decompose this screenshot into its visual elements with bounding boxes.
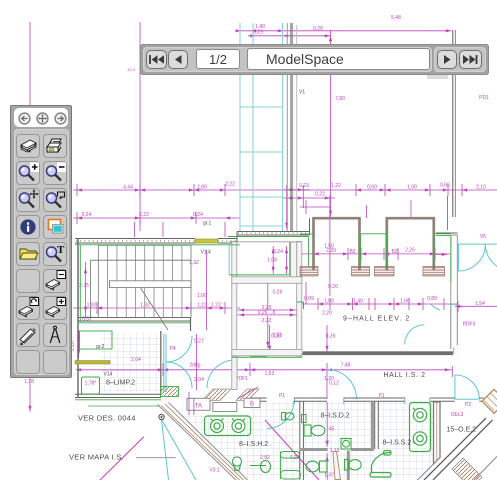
toilet I.S.H small [282, 413, 295, 421]
svg-text:OEL3: OEL3 [451, 412, 464, 418]
window band rail 2 [240, 151, 283, 153]
wall tick c [448, 303, 458, 305]
door I.S.H.2 arc [267, 402, 294, 429]
svg-text:8–I.S.D.2: 8–I.S.D.2 [321, 413, 350, 420]
green finish left wall [79, 245, 81, 322]
next-page button [437, 50, 457, 69]
svg-text:gr.1: gr.1 [203, 221, 212, 227]
svg-text:0,26→8: 0,26→8 [258, 310, 276, 316]
door PDF1 arc [207, 360, 235, 388]
svg-text:TA: TA [195, 404, 202, 410]
ramp pivot marker [159, 414, 164, 419]
facade line PD1 b [454, 30, 456, 217]
svg-text:P2: P2 [465, 402, 471, 408]
window band mullion left [239, 23, 241, 231]
ramp brown line a [161, 406, 240, 480]
svg-text:1,40: 1,40 [353, 299, 363, 305]
green finish window wall [228, 236, 309, 238]
svg-text:8–I.S.H.2: 8–I.S.H.2 [239, 441, 268, 448]
svg-text:T: T [57, 244, 65, 256]
pier brown core [436, 402, 438, 461]
green between shafts [361, 234, 387, 267]
diagonal reference line bath [265, 420, 319, 480]
door P4 frame [164, 334, 166, 392]
svg-text:0,12: 0,12 [329, 381, 339, 387]
hatched duct box [161, 387, 179, 397]
svg-text:VER DES. 0044: VER DES. 0044 [78, 414, 136, 423]
button views [43, 215, 67, 239]
window band rail 1 [240, 106, 283, 108]
leader line VER MAPA [136, 457, 176, 459]
svg-text:V1: V1 [299, 90, 305, 96]
green right of shaft2 [434, 234, 451, 267]
first-page button [146, 50, 167, 69]
niche glazing cyan [228, 242, 230, 275]
dim row below shafts 1,00/1,40 [300, 282, 452, 310]
dim line top 1,40/5,48 [236, 31, 451, 36]
svg-text:1,78: 1,78 [24, 379, 34, 385]
svg-text:1,00: 1,00 [407, 185, 417, 191]
left facade wall [77, 239, 79, 398]
green stair bottom [78, 322, 190, 324]
shaft sill 1R [352, 267, 370, 277]
svg-text:0,24: 0,24 [273, 249, 283, 255]
button print [43, 134, 67, 158]
thick pier O.E.2 [434, 402, 441, 464]
top wall left inner [75, 242, 237, 244]
diagonal reference line VER MAPA [100, 437, 144, 480]
room gr.2 [80, 331, 113, 349]
svg-text:2,22: 2,22 [225, 182, 235, 188]
svg-text:0,22: 0,22 [315, 192, 325, 198]
dim row y308 stairs 1,92/1,22 [73, 250, 240, 330]
toilet 2 [306, 461, 327, 472]
shaft sill 2R [423, 267, 445, 277]
green left pier top [300, 233, 314, 235]
svg-text:1,22: 1,22 [197, 303, 207, 309]
door sill yellow gr.1 [195, 239, 218, 243]
svg-text:1,08: 1,08 [267, 258, 277, 264]
louvre hatch b [236, 389, 259, 401]
svg-text:2d8g: 2d8g [189, 363, 200, 369]
svg-text:2,22: 2,22 [262, 318, 272, 324]
stair right jamb [161, 318, 191, 394]
diamond element [482, 389, 497, 413]
svg-text:1,37: 1,37 [324, 473, 334, 479]
left tool palette [10, 105, 72, 378]
niche top edge [229, 241, 302, 243]
svg-text:B2: B2 [391, 249, 397, 255]
svg-text:1,00: 1,00 [400, 299, 410, 305]
svg-text:0,26: 0,26 [273, 290, 283, 296]
bath top wall thick [303, 351, 453, 355]
dim row y218 0,24/2,22 [73, 212, 240, 237]
button layer-minus [43, 269, 67, 293]
partition I.S.S.2 [370, 451, 391, 478]
svg-text:B2: B2 [349, 249, 355, 255]
dim row y190 right 0,60/1,00/2,10 [356, 184, 462, 196]
arrowheads [28, 29, 467, 461]
dim top of shafts [300, 200, 330, 214]
stair direction line [138, 284, 168, 330]
button zoom-text [43, 242, 67, 266]
hall pier top [310, 218, 458, 235]
button blank3 [43, 350, 67, 374]
empty box [213, 403, 237, 412]
door P2 arc [455, 375, 479, 399]
tile floor LIMP.2 [101, 332, 161, 392]
green hall right wall [436, 236, 451, 283]
top wall left outer [75, 238, 237, 240]
paper holder I.S.D.2 [302, 415, 307, 423]
wall tick a [295, 398, 430, 405]
dim 1,54 [455, 301, 497, 312]
construction line left [29, 22, 31, 412]
ramp edge b [169, 403, 248, 480]
stair bottom wall inner [78, 320, 191, 322]
dim shaft row y254 B2/B2 [300, 195, 450, 296]
dim vertical 7,80 [330, 30, 332, 217]
button zoom-in [16, 161, 40, 185]
svg-text:0,26: 0,26 [326, 334, 336, 340]
diagonal corridor wall b [433, 420, 493, 480]
corner diagonal [474, 457, 497, 480]
button compass [43, 323, 67, 347]
space name field ModelSpace [247, 48, 430, 70]
tile floor I.S.D.2 [304, 402, 375, 479]
B box [244, 398, 260, 407]
button zoom-pan [16, 188, 40, 212]
last-page button [459, 50, 482, 69]
svg-text:1,00: 1,00 [324, 299, 334, 305]
svg-text:1,53: 1,53 [265, 371, 275, 377]
stair mid landing line [91, 260, 192, 317]
dim window band bottom 0,23/1,22 [283, 185, 335, 229]
hall right wall lower [451, 304, 458, 349]
svg-text:0,26: 0,26 [328, 284, 338, 290]
duct room mid wall band [232, 277, 302, 284]
stair bottom wall outer [78, 317, 191, 319]
door I.S.D.2 arc [327, 370, 357, 400]
stair outer box [98, 245, 191, 317]
svg-text:4,44: 4,44 [123, 185, 133, 191]
wall tick b [453, 347, 455, 354]
diagonal corridor wall a [424, 418, 486, 480]
svg-text:1,00: 1,00 [87, 303, 97, 309]
svg-text:V5: V5 [480, 234, 486, 240]
svg-text:8–I.S.S.2: 8–I.S.S.2 [383, 440, 412, 447]
button measure [16, 323, 40, 347]
svg-text:V1.4: V1.4 [201, 250, 212, 256]
LIMP bottom wall [75, 394, 161, 397]
dim tick ramp [189, 392, 194, 415]
door V5 leaf1 arc [458, 244, 485, 271]
hall right wall [451, 235, 458, 304]
svg-text:1,00: 1,00 [197, 293, 207, 299]
bath top wall thin [250, 353, 303, 355]
bath wall vertical a [300, 401, 304, 480]
svg-text:gr.2: gr.2 [96, 344, 105, 350]
louvre hatch a [202, 389, 231, 401]
button blank1 [16, 269, 40, 293]
room 1,78 box [82, 377, 100, 394]
svg-text:0,19: 0,19 [253, 30, 263, 36]
bath mid wall segments [250, 397, 484, 399]
room C green bottom [232, 356, 302, 358]
door V5 leaf2 arc [485, 244, 497, 271]
svg-text:1,92: 1,92 [140, 303, 150, 309]
button info [16, 215, 40, 239]
niche dims [238, 246, 297, 348]
svg-text:45: 45 [329, 427, 335, 433]
stair rail [110, 281, 192, 288]
svg-text:0,26: 0,26 [273, 333, 283, 339]
dim 2,75 stairs left [85, 262, 87, 318]
svg-text:PD1: PD1 [479, 95, 489, 101]
nav circle forward [54, 112, 67, 125]
nav circle back [18, 112, 31, 125]
duct room left wall [232, 242, 237, 357]
window band rail 3 [240, 196, 283, 198]
button blank2 [16, 350, 40, 374]
door V5 head [458, 243, 497, 245]
button layer-refresh [16, 296, 40, 320]
door P4 arc bottom [166, 362, 192, 388]
duct room bottom wall band [232, 350, 302, 356]
ramp edge a [158, 405, 237, 480]
green partition tongues I.S.H.2 [281, 452, 300, 459]
door sill olive gr.2 [75, 361, 110, 365]
button open [16, 242, 40, 266]
dim row y190 left 4,44/2,80 [73, 184, 497, 196]
green pier left of shaft1 [308, 237, 310, 267]
svg-text:2,04: 2,04 [131, 357, 141, 363]
svg-text:15–O.E.2: 15–O.E.2 [447, 427, 477, 434]
svg-text:8–LIMP.2: 8–LIMP.2 [106, 380, 135, 387]
svg-text:2,20: 2,20 [326, 248, 336, 254]
door P4 arc top [166, 336, 192, 362]
facade line PD1 a [452, 30, 454, 217]
svg-text:0,89: 0,89 [427, 296, 437, 302]
svg-text:0,23: 0,23 [299, 183, 309, 189]
button zoom-window [43, 188, 67, 212]
svg-text:P4: P4 [169, 346, 175, 352]
svg-text:1,78*: 1,78* [85, 381, 97, 387]
leader V6 [447, 196, 449, 230]
svg-text:2,22: 2,22 [139, 212, 149, 218]
green corner mark [297, 302, 304, 309]
svg-text:0,60: 0,60 [367, 185, 377, 191]
navigation bar [140, 44, 489, 75]
page field 1/2 [196, 49, 240, 69]
niche green liner [229, 242, 290, 275]
button layers [16, 134, 40, 158]
svg-text:P1: P1 [279, 393, 285, 399]
button layer-plus [43, 296, 67, 320]
sink counter 2 [410, 403, 431, 452]
elevator shaft 1 [314, 218, 360, 270]
svg-text:2,26: 2,26 [405, 248, 415, 254]
svg-text:7,48: 7,48 [341, 363, 351, 369]
wall step [236, 232, 238, 244]
dim verticals bottom 1,10 [326, 402, 328, 480]
sink counter 1 [205, 416, 251, 436]
svg-text:0,27: 0,27 [194, 339, 204, 345]
TA box [187, 398, 210, 410]
door V3.1 line b [162, 420, 197, 480]
svg-text:0,09: 0,09 [304, 296, 314, 302]
tile floor I.S.H.2 [251, 402, 300, 479]
dim hall arrow y254 [430, 253, 447, 255]
svg-text:2,80: 2,80 [197, 185, 207, 191]
svg-text:1,54: 1,54 [475, 301, 485, 307]
elevator shaft 2 [387, 218, 434, 270]
svg-text:HALL I.S. 2: HALL I.S. 2 [384, 372, 426, 379]
svg-text:0,20: 0,20 [313, 26, 323, 32]
nav circle pan [36, 112, 49, 125]
window band mullion right [282, 23, 284, 231]
window band rail 4 [240, 225, 283, 227]
WC near ramp [232, 457, 241, 471]
stair treads [108, 245, 182, 317]
toilet 1 [304, 425, 325, 436]
floor drain [341, 439, 351, 450]
window jamb lines [286, 23, 288, 231]
leaf diagonal near B [237, 387, 258, 399]
wall hatch ticks [76, 240, 237, 242]
toilet I.S.H low [261, 461, 271, 473]
door leaf I.S.D.2 [333, 452, 341, 480]
duct room right wall [297, 242, 302, 357]
green LIMP bottom [75, 400, 161, 406]
green finish top-left wall [75, 244, 240, 246]
small arc hall left [431, 304, 441, 310]
door PDF3 arc [405, 325, 425, 345]
svg-text:2,10: 2,10 [476, 185, 486, 191]
svg-text:2,20: 2,20 [322, 311, 332, 317]
prev-page button [168, 50, 188, 69]
svg-text:V3.1: V3.1 [209, 468, 220, 474]
niche right pillar [291, 242, 297, 277]
top wall right inner [237, 234, 310, 236]
dim left edge 2,20 [78, 330, 80, 358]
svg-text:PDF3: PDF3 [463, 322, 476, 328]
button zoom-out [43, 161, 67, 185]
svg-text:V14: V14 [104, 372, 113, 378]
svg-text:7,80: 7,80 [335, 96, 345, 102]
toilet 3 [345, 460, 362, 471]
stall walls I.S.D.2 [301, 402, 372, 480]
svg-text:1,22: 1,22 [331, 183, 341, 189]
svg-text:0,60: 0,60 [440, 183, 450, 189]
pier diagonal leg [414, 458, 440, 480]
bath wall vertical b [375, 401, 379, 449]
ramp brown line b [165, 404, 244, 480]
svg-text:10,3: 10,3 [127, 67, 136, 72]
shaft sill 2L [375, 267, 395, 277]
door V3.1 line a [162, 420, 169, 480]
svg-text:B: B [250, 402, 254, 408]
tile floor ramp lobby [176, 414, 258, 480]
window band mullion mid [252, 23, 254, 231]
svg-text:9–HALL ELEV. 2: 9–HALL ELEV. 2 [343, 316, 410, 323]
dim 0,26 pair [270, 325, 327, 355]
dim row y370 2,04/7,48 [76, 334, 452, 399]
svg-text:1,22: 1,22 [211, 303, 221, 309]
svg-text:VER MAPA I.S.: VER MAPA I.S. [69, 453, 124, 462]
construction line x140 [139, 22, 141, 231]
svg-text:2,04: 2,04 [194, 377, 204, 383]
svg-text:5,48: 5,48 [391, 15, 401, 21]
svg-text:0,24: 0,24 [82, 212, 92, 218]
shaft sill 1L [300, 267, 318, 277]
diagonal hatch bottom right [452, 458, 482, 480]
tile floor I.S.S.2 [379, 402, 433, 479]
svg-text:0,24: 0,24 [193, 212, 203, 218]
top wall right outer [237, 231, 310, 233]
dropdown remnant under navbar [427, 74, 448, 79]
